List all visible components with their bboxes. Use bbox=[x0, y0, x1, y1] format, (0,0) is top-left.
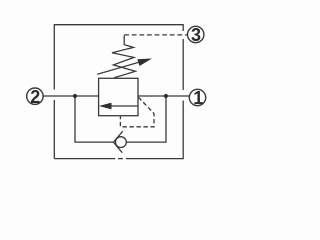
svg-text:2: 2 bbox=[30, 87, 40, 107]
svg-text:3: 3 bbox=[191, 25, 201, 45]
svg-text:1: 1 bbox=[193, 88, 203, 108]
